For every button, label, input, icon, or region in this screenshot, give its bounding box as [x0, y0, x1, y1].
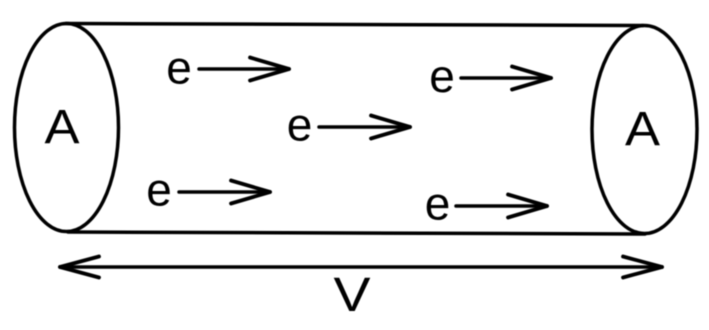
arrowhead lower barb: [512, 78, 551, 90]
arrowhead upper barb: [508, 195, 547, 207]
arrowhead upper barb: [231, 181, 270, 193]
svg-text:e: e: [146, 164, 172, 216]
svg-text:A: A: [45, 101, 80, 154]
right arrowhead upper barb: [623, 257, 662, 268]
electron arrow top-left: [199, 58, 289, 81]
arrowhead lower barb: [250, 69, 289, 81]
svg-text:V: V: [334, 269, 371, 322]
svg-text:e: e: [166, 42, 192, 94]
right arrowhead lower barb: [623, 267, 662, 278]
arrow shaft (bottom-left e): [179, 190, 270, 194]
arrowhead upper barb: [512, 67, 551, 79]
arrow shaft (V dimension): [60, 265, 662, 269]
arrow shaft (middle e): [319, 125, 410, 129]
svg-text:e: e: [425, 178, 451, 230]
double-headed length/voltage arrow: [60, 257, 662, 278]
arrow shaft (top-left e): [199, 67, 289, 71]
arrowhead upper barb: [371, 116, 410, 128]
electron arrow top-right: [461, 67, 551, 90]
arrowhead lower barb: [231, 192, 270, 204]
arrowhead lower barb: [371, 127, 410, 139]
arrowhead lower barb: [508, 206, 547, 218]
right end-cap ellipse (cross-section A): [592, 26, 697, 234]
svg-text:A: A: [625, 103, 660, 156]
arrow shaft (bottom-right e): [456, 204, 547, 208]
svg-text:e: e: [429, 50, 455, 102]
arrowhead upper barb: [250, 58, 289, 70]
electron arrow middle: [319, 116, 410, 139]
cylinder bottom side line: [68, 232, 645, 234]
electron arrow bottom-left: [179, 181, 270, 204]
electron arrow bottom-right: [456, 195, 547, 218]
arrow shaft (top-right e): [461, 76, 551, 80]
svg-text:e: e: [287, 99, 313, 151]
left end-cap ellipse (cross-section A): [15, 24, 119, 232]
cylinder top side line: [66, 24, 643, 26]
left arrowhead upper barb: [60, 257, 99, 268]
left arrowhead lower barb: [60, 267, 99, 278]
